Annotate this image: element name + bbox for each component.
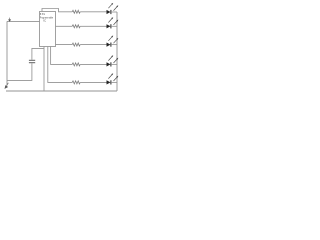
resistor R5	[72, 81, 80, 84]
right cathode rail	[116, 12, 118, 91]
wire capacitor bottom to left rail	[7, 63, 32, 80]
wire row3 from IC right edge	[56, 44, 73, 46]
IC label text	[40, 12, 54, 23]
wire IC ground pin to bottom rail	[43, 47, 45, 92]
wire row5 to LED	[80, 81, 107, 83]
svg-text:IC: IC	[43, 19, 46, 23]
wire row4 from IC bottom pin	[51, 47, 73, 65]
resistor R4	[72, 63, 80, 66]
wire top supply from battery to IC pin	[7, 20, 40, 22]
wire row5 from IC bottom pin	[48, 47, 72, 83]
battery arrow top (points down onto wire)	[9, 18, 11, 22]
LED D1	[107, 3, 119, 14]
resistor R3	[72, 43, 80, 46]
wire row3 to LED	[80, 44, 107, 46]
wire capacitor top connection	[32, 48, 44, 59]
LED D3	[107, 36, 119, 47]
resistor R1	[72, 10, 80, 13]
wire row4 to LED	[80, 63, 107, 65]
resistor R2	[72, 25, 80, 28]
LED D2	[107, 17, 119, 28]
LED D5	[107, 73, 119, 84]
battery arrow bottom (points down-left into bottom rail)	[5, 83, 8, 89]
capacitor C1	[29, 60, 35, 62]
wire left supply rail	[6, 21, 8, 85]
svg-text:Programmable: Programmable	[40, 15, 54, 19]
wire row2 to LED	[80, 25, 107, 27]
LED D4	[107, 55, 119, 66]
wire row1 from IC top	[42, 9, 72, 12]
wire row2 from IC right edge	[56, 25, 73, 27]
op IC box U1 programmable	[40, 12, 56, 47]
wire row1 to LED	[80, 11, 107, 13]
bottom ground rail	[6, 90, 117, 92]
